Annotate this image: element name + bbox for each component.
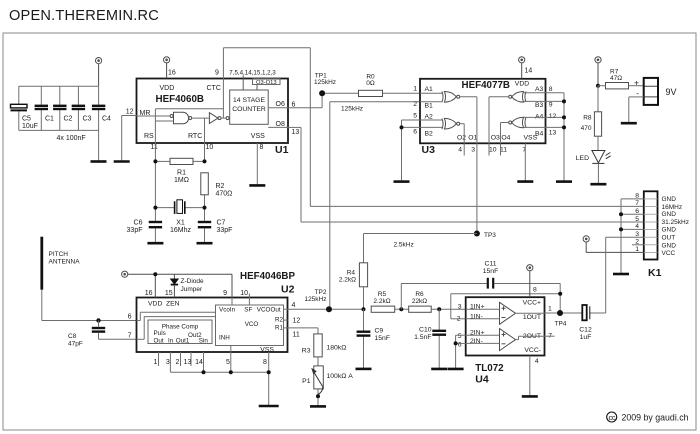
svg-text:7: 7 [635, 200, 639, 207]
U2 internal pin wires [137, 298, 288, 340]
svg-text:VSS: VSS [251, 133, 265, 140]
svg-text:16: 16 [168, 70, 176, 77]
resistor R4 [359, 263, 367, 287]
test point TP3 [474, 231, 480, 237]
svg-text:R2: R2 [275, 317, 284, 324]
wire RS RTC down [155, 143, 204, 242]
svg-text:3: 3 [458, 303, 462, 310]
svg-text:X1: X1 [176, 220, 185, 227]
resistor R6 [409, 306, 432, 312]
svg-text:C6: C6 [134, 220, 143, 227]
svg-text:1MΩ: 1MΩ [174, 177, 189, 184]
ic U1 box [137, 79, 289, 144]
power flag cap bank [96, 58, 102, 87]
crystal X1 [175, 200, 185, 214]
nand gate U1 [170, 112, 192, 124]
ground C9 [356, 368, 372, 371]
capacitor C1 [35, 106, 48, 109]
svg-text:C9: C9 [375, 327, 384, 334]
svg-text:Puls: Puls [154, 330, 166, 337]
svg-text:C8: C8 [68, 333, 77, 340]
svg-text:B3: B3 [535, 102, 544, 109]
svg-text:O1: O1 [468, 135, 477, 142]
svg-text:TP4: TP4 [555, 321, 567, 328]
ground battery [621, 122, 637, 125]
svg-text:2: 2 [413, 101, 417, 108]
power flag U2 [122, 271, 232, 297]
wire R7 to battery [598, 85, 644, 87]
svg-text:R3: R3 [302, 348, 311, 355]
node R7 R8 [596, 84, 600, 88]
svg-text:15nF: 15nF [375, 335, 391, 342]
node C8 [96, 318, 100, 322]
svg-text:A4: A4 [535, 113, 544, 120]
node R5 R6 [399, 307, 403, 311]
svg-text:O3: O3 [491, 135, 500, 142]
resistor R2 [201, 173, 209, 195]
svg-text:13: 13 [292, 129, 300, 136]
svg-text:In: In [168, 338, 174, 345]
svg-text:cc: cc [608, 413, 615, 422]
wire pin11 to R3 [288, 328, 319, 334]
test point TP1 [319, 90, 325, 96]
svg-text:12: 12 [126, 109, 134, 116]
battery 9V [644, 78, 658, 105]
svg-text:11: 11 [293, 332, 300, 339]
wire CTC 16MHz net [223, 48, 643, 207]
svg-text:CTC: CTC [207, 85, 221, 92]
svg-text:C10: C10 [419, 326, 432, 333]
svg-text:SF: SF [244, 307, 252, 314]
vco box [216, 305, 284, 346]
svg-text:47Ω: 47Ω [610, 75, 622, 82]
svg-text:2.2kΩ: 2.2kΩ [339, 276, 356, 283]
svg-text:1.5nF: 1.5nF [414, 334, 431, 341]
svg-text:VCC-: VCC- [524, 347, 541, 354]
power flag R7 [595, 57, 601, 86]
svg-text:HEF4046BP: HEF4046BP [240, 271, 295, 282]
svg-text:10: 10 [206, 144, 214, 151]
resistor R7 [606, 83, 629, 89]
svg-text:Phase Comp: Phase Comp [162, 324, 199, 331]
svg-text:R1: R1 [177, 170, 186, 177]
svg-text:4: 4 [535, 358, 539, 365]
svg-text:GND: GND [662, 211, 677, 218]
svg-text:10uF: 10uF [22, 123, 38, 130]
wire 2IN+ 2IN- to ground [456, 335, 466, 368]
svg-text:15: 15 [165, 290, 173, 297]
svg-text:2009 by gaudi.ch: 2009 by gaudi.ch [622, 413, 689, 423]
svg-text:R1: R1 [275, 324, 284, 331]
svg-text:7: 7 [522, 147, 526, 154]
test point TP4 [545, 312, 583, 314]
svg-text:K1: K1 [648, 267, 662, 279]
U3 internal wires [420, 93, 546, 144]
resistor R3 [314, 334, 322, 357]
ground MR [114, 160, 130, 163]
svg-text:RTC: RTC [188, 133, 202, 140]
node R6 C10 [437, 307, 441, 311]
svg-text:VCC+: VCC+ [523, 300, 541, 307]
svg-text:VDD: VDD [160, 85, 175, 92]
svg-text:U3: U3 [422, 144, 436, 156]
svg-text:13: 13 [184, 359, 192, 366]
svg-text:C2: C2 [64, 116, 73, 123]
wire battery minus to ground [629, 97, 644, 123]
svg-text:LED: LED [576, 155, 589, 162]
svg-text:16: 16 [145, 290, 153, 297]
svg-text:1OUT: 1OUT [523, 314, 541, 321]
ground U2 VSS [259, 405, 279, 408]
svg-text:A1: A1 [425, 86, 434, 93]
wire vdd bus [19, 86, 99, 161]
ground U1 VSS [249, 184, 265, 187]
K1 gnd wires [621, 199, 644, 273]
xnor gate 4 (A4 B4) mirrored [509, 117, 526, 128]
ground LED [590, 183, 606, 186]
svg-text:C7: C7 [217, 220, 226, 227]
svg-text:O4: O4 [501, 135, 510, 142]
svg-text:R6: R6 [415, 291, 424, 298]
svg-text:VDD: VDD [515, 81, 529, 88]
capacitor C5 [11, 104, 28, 110]
svg-text:C3: C3 [83, 116, 92, 123]
svg-text:TL072: TL072 [475, 363, 504, 374]
svg-text:R8: R8 [583, 115, 592, 122]
svg-text:ANTENNA: ANTENNA [49, 259, 81, 266]
svg-text:15nF: 15nF [483, 268, 499, 275]
K1 net labels [662, 196, 689, 257]
ground C6 [147, 242, 163, 245]
svg-text:+: + [634, 78, 639, 88]
svg-text:5: 5 [635, 216, 639, 223]
svg-text:VCO: VCO [245, 321, 259, 328]
svg-text:1uF: 1uF [580, 334, 592, 341]
ground U3 VSS [517, 180, 533, 183]
capacitor C10 [438, 309, 440, 368]
svg-text:Out: Out [154, 338, 164, 345]
U4 labels [470, 304, 485, 345]
resistor R1 [170, 158, 193, 164]
U2 bottom pin numbers [154, 359, 268, 366]
svg-text:3: 3 [471, 147, 475, 154]
svg-text:C12: C12 [579, 327, 592, 334]
power flag U4 [527, 265, 533, 298]
op-amp A2 [500, 329, 516, 351]
power flag U1 pin16 [164, 57, 170, 79]
svg-text:10: 10 [240, 290, 248, 297]
svg-text:125kHz: 125kHz [304, 296, 326, 303]
svg-text:C5: C5 [22, 116, 31, 123]
svg-text:10: 10 [489, 147, 497, 154]
capacitor C11 + feedback wires [401, 284, 560, 319]
svg-text:PITCH: PITCH [49, 251, 69, 258]
svg-text:12: 12 [293, 318, 301, 325]
U1 internal wires [137, 79, 289, 144]
svg-text:6: 6 [128, 314, 132, 321]
svg-text:2.5kHz: 2.5kHz [394, 242, 414, 249]
ground U3 inputs [556, 180, 572, 183]
capacitor C12 [582, 305, 590, 320]
svg-text:9: 9 [549, 102, 553, 109]
op-amp A1 [500, 302, 516, 324]
svg-text:4x 100nF: 4x 100nF [57, 135, 86, 142]
svg-text:RS: RS [144, 133, 154, 140]
wire MR to ground [122, 116, 137, 161]
xnor gate 2 (A2 B2) [442, 118, 460, 129]
svg-text:VDD: VDD [148, 300, 162, 307]
wire 2.5kHz [364, 234, 477, 263]
svg-text:OPEN.THEREMIN.RC: OPEN.THEREMIN.RC [9, 8, 159, 24]
ground U4 inputs [448, 368, 464, 371]
wire U1 VSS to ground [256, 143, 258, 185]
power flag K1 VCC [583, 236, 644, 253]
svg-text:VCOOut: VCOOut [257, 307, 281, 314]
svg-text:100kΩ A: 100kΩ A [327, 373, 354, 380]
xnor gate 1 (A1 B1) [442, 92, 460, 103]
svg-text:4: 4 [292, 302, 296, 309]
U2 left pin numbers [128, 314, 132, 340]
svg-text:2: 2 [457, 316, 461, 323]
svg-text:VCC: VCC [662, 250, 676, 257]
U3 right pin labels [535, 86, 557, 137]
phase comp box [148, 320, 212, 344]
svg-text:2: 2 [176, 359, 180, 366]
U1 pin numbers [126, 70, 300, 152]
svg-text:A3: A3 [535, 86, 544, 93]
ic U3 box [420, 79, 546, 144]
U4 internal wires [466, 309, 555, 343]
svg-text:U2: U2 [281, 284, 295, 296]
svg-text:8: 8 [549, 86, 553, 93]
svg-text:ZEN: ZEN [166, 300, 180, 307]
svg-text:HEF4077B: HEF4077B [462, 80, 510, 91]
svg-text:GND: GND [662, 227, 677, 234]
svg-text:9V: 9V [666, 87, 677, 97]
K1 pin numbers [635, 193, 639, 254]
svg-text:1: 1 [154, 359, 158, 366]
svg-text:14: 14 [195, 359, 203, 366]
ground C7 [197, 242, 213, 245]
svg-text:1: 1 [548, 305, 552, 312]
capacitor C6 [149, 222, 162, 227]
svg-text:R2: R2 [216, 183, 225, 190]
svg-text:Z-Diode: Z-Diode [181, 278, 205, 285]
wire B1 125kHz from TP2 [330, 102, 420, 310]
resistor R0 [359, 90, 383, 96]
wire O8 31.25kHz net [288, 127, 644, 222]
svg-text:VSS: VSS [260, 347, 274, 354]
svg-text:8: 8 [263, 359, 267, 366]
svg-text:470Ω: 470Ω [216, 191, 233, 198]
svg-text:6: 6 [292, 101, 296, 108]
resistor R8 [597, 86, 599, 112]
svg-text:O8: O8 [276, 121, 285, 128]
ground C10 [431, 368, 447, 371]
svg-text:TP2: TP2 [315, 289, 327, 296]
svg-text:5: 5 [226, 359, 230, 366]
node dots oscillator [153, 159, 206, 209]
svg-text:P1: P1 [302, 378, 311, 385]
antenna PITCH [40, 237, 43, 290]
svg-text:2.2kΩ: 2.2kΩ [373, 298, 390, 305]
svg-text:1: 1 [413, 86, 417, 93]
wire K1 OUT to C12 [590, 237, 644, 313]
ground cap bank [91, 160, 107, 163]
svg-text:GND: GND [662, 196, 677, 203]
ground P1 [310, 405, 326, 408]
wire O1 to TP3 [476, 143, 478, 233]
svg-text:U4: U4 [475, 374, 489, 386]
svg-text:11: 11 [151, 144, 158, 151]
U3 left pin labels [413, 86, 433, 138]
svg-text:C11: C11 [485, 261, 497, 268]
svg-text:33pF: 33pF [127, 227, 143, 234]
wire antenna to pin6 [42, 290, 137, 321]
wire O6 to TP1 [288, 93, 359, 108]
svg-text:4: 4 [458, 147, 462, 154]
svg-text:470: 470 [581, 125, 592, 132]
svg-text:U1: U1 [275, 144, 289, 156]
U2 bottom stubs [159, 346, 269, 406]
power flag U3 pin14 [519, 57, 525, 79]
capacitor C9 [363, 309, 365, 368]
svg-text:9: 9 [223, 290, 227, 297]
svg-text:C1: C1 [45, 116, 54, 123]
ground A2B2 [394, 180, 410, 183]
svg-text:TP3: TP3 [484, 232, 496, 239]
svg-text:O3-O13: O3-O13 [256, 80, 277, 86]
svg-text:COUNTER: COUNTER [232, 106, 266, 113]
svg-text:8: 8 [533, 287, 537, 294]
z-diode jumper [171, 274, 178, 297]
svg-text:R5: R5 [378, 291, 387, 298]
svg-text:9: 9 [215, 70, 219, 77]
led LED [597, 136, 599, 150]
svg-text:11: 11 [500, 147, 507, 154]
ic U2 box [137, 298, 288, 353]
svg-text:B1: B1 [425, 102, 434, 109]
ground U4 VCC- [522, 395, 538, 398]
svg-text:INH: INH [219, 335, 230, 342]
svg-text:3: 3 [166, 359, 170, 366]
svg-text:16MHz: 16MHz [662, 204, 683, 211]
U3 bottom labels [457, 135, 538, 154]
svg-text:13: 13 [549, 130, 557, 137]
svg-text:VSS: VSS [524, 135, 538, 142]
K1 pin lines inside [644, 199, 658, 253]
capacitor C2 [53, 106, 66, 109]
svg-text:A2: A2 [425, 113, 434, 120]
node R4 C9 [362, 307, 366, 311]
wire gnd bus [19, 129, 99, 131]
svg-text:R4: R4 [347, 269, 356, 276]
svg-text:O6: O6 [276, 101, 285, 108]
svg-text:47pF: 47pF [68, 341, 83, 348]
svg-text:180kΩ: 180kΩ [327, 345, 347, 352]
svg-text:125kHz: 125kHz [341, 106, 363, 113]
wire R0 to U3 A1 [383, 92, 421, 94]
svg-text:16Mhz: 16Mhz [170, 227, 192, 234]
svg-text:14 STAGE: 14 STAGE [233, 97, 265, 104]
svg-text:22kΩ: 22kΩ [412, 298, 427, 305]
svg-text:GND: GND [662, 243, 677, 250]
svg-text:7,5,4,14,15,1,2,3: 7,5,4,14,15,1,2,3 [229, 70, 276, 77]
svg-text:C4: C4 [102, 116, 111, 123]
inverter U1 [209, 113, 229, 124]
capacitor C8 [92, 328, 105, 332]
svg-text:33pF: 33pF [217, 227, 233, 234]
capacitor C3 [72, 106, 85, 109]
ground K1 [613, 273, 629, 276]
wire A2 B2 to ground [402, 120, 421, 181]
wire A3 B3 A4 B4 to ground [546, 93, 565, 181]
svg-text:6: 6 [458, 341, 462, 348]
svg-text:5: 5 [458, 333, 462, 340]
svg-text:31.25kHz: 31.25kHz [662, 219, 689, 226]
svg-text:HEF4060B: HEF4060B [156, 94, 204, 105]
svg-text:O2: O2 [457, 135, 466, 142]
svg-text:8: 8 [260, 144, 264, 151]
capacitor C4 [92, 106, 105, 109]
test point TP2 [288, 308, 364, 310]
potentiometer P1 [317, 357, 319, 366]
ic U1 labels [140, 85, 266, 140]
svg-text:0Ω: 0Ω [366, 80, 375, 87]
wire VCC- to ground [529, 356, 531, 396]
U2 pin numbers top [145, 290, 248, 297]
svg-text:12: 12 [549, 113, 557, 120]
svg-text:OUT: OUT [662, 234, 676, 241]
14 stage counter box [230, 90, 269, 124]
wire bracket pins to counter [243, 76, 257, 91]
svg-text:VcoIn: VcoIn [219, 306, 236, 313]
xnor gate 3 (A3 B3) mirrored [509, 92, 526, 103]
svg-text:Jumper: Jumper [181, 286, 204, 293]
resistor R5 [371, 306, 395, 312]
svg-text:Sin: Sin [199, 338, 209, 345]
svg-text:125kHz: 125kHz [314, 79, 336, 86]
O3-O13 label box [253, 79, 281, 85]
svg-text:7: 7 [128, 332, 132, 339]
U3 pin stubs below [464, 143, 525, 181]
capacitor C7 [198, 222, 211, 227]
ic U4 box [466, 297, 545, 355]
svg-text:6: 6 [413, 129, 417, 136]
svg-text:B2: B2 [425, 130, 434, 137]
U2 right pin numbers [292, 302, 301, 339]
connector K1 box [644, 191, 658, 259]
svg-text:5: 5 [413, 113, 417, 120]
copyright [607, 412, 617, 422]
svg-text:14: 14 [525, 68, 533, 75]
